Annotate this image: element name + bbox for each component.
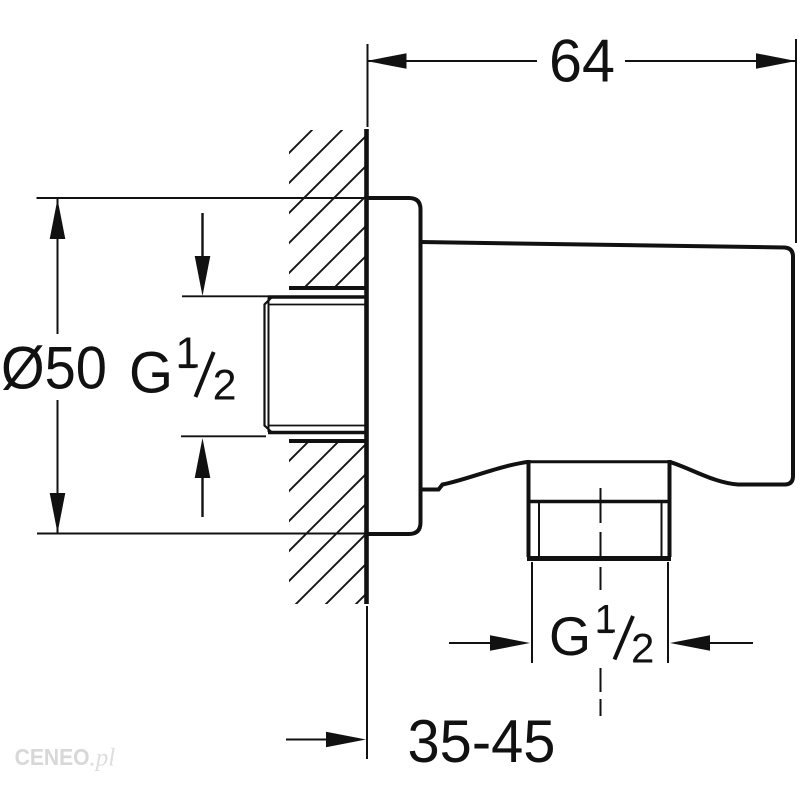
- inlet dim: top arrow (down): [201, 213, 203, 258]
- svg-text:2: 2: [213, 362, 237, 410]
- svg-text:.pl: .pl: [90, 745, 116, 772]
- inlet thread top edge: [268, 295, 366, 299]
- dim D50: top arrowhead: [50, 199, 66, 239]
- outlet label G 1/2: fraction slash: [615, 616, 634, 660]
- outlet dim G 1/2: left arrow: [449, 642, 492, 644]
- outlet hub right edge: [668, 460, 672, 503]
- svg-text:1: 1: [175, 329, 199, 378]
- dim 64: left extension line: [367, 44, 369, 127]
- escutcheon flange outline: [366, 198, 421, 534]
- svg-text:64: 64: [549, 28, 615, 95]
- inlet thread inner top line: [269, 304, 367, 306]
- wall hole bottom edge: [289, 439, 365, 443]
- inlet dim: bottom extension line: [181, 435, 266, 437]
- dim 64: left arrowhead: [367, 53, 407, 69]
- dim D50: dimension line: [57, 199, 59, 334]
- dim D50: bottom extension line: [37, 533, 366, 535]
- outlet thread bottom face: [527, 556, 671, 561]
- outlet dim G 1/2: right arrow: [670, 635, 710, 651]
- body bottom-left outline: [421, 462, 529, 490]
- svg-text:1: 1: [594, 598, 616, 642]
- outlet thread right edge: [668, 502, 672, 558]
- outlet hub shoulder line: [529, 460, 670, 463]
- inlet dim: bottom arrow (up): [195, 438, 211, 478]
- dim 35-45: extension line: [366, 606, 368, 759]
- svg-text:G: G: [549, 605, 591, 667]
- inlet dim: top extension line: [182, 295, 268, 297]
- label G 1/2 (inlet): fraction slash: [196, 352, 214, 397]
- outlet thread inner left line: [538, 503, 540, 556]
- svg-text:35-45: 35-45: [408, 708, 556, 775]
- svg-text:CENEO: CENEO: [15, 744, 90, 770]
- dim 64: dimension line: [367, 60, 538, 62]
- dim D50: top extension line: [37, 197, 367, 199]
- inlet thread left end with chamfers: [265, 297, 273, 433]
- svg-text:2: 2: [631, 625, 654, 672]
- svg-text:Ø50: Ø50: [1, 335, 107, 402]
- outlet thread left edge: [527, 502, 531, 558]
- outlet thread top line: [527, 500, 671, 504]
- outlet hub left edge: [527, 460, 531, 503]
- inlet thread bottom edge: [268, 431, 366, 435]
- wall hole top edge: [289, 286, 365, 290]
- outlet dim G 1/2: right extension line: [667, 562, 669, 663]
- inlet thread inner left line: [268, 298, 270, 433]
- wall hatch lines lower: [140, 120, 800, 610]
- wall hatch lines upper: [0, 120, 532, 610]
- outlet thread inner right line: [661, 503, 663, 556]
- svg-text:G: G: [129, 341, 173, 406]
- inlet thread inner bottom line: [269, 425, 367, 427]
- outlet dim G 1/2: left extension line: [531, 562, 533, 663]
- wall face line: [364, 129, 369, 604]
- dim 64: right extension line: [795, 39, 797, 243]
- body top outline: [421, 242, 794, 485]
- dim 35-45: arrow: [286, 739, 330, 741]
- dim D50: bottom arrowhead: [50, 493, 66, 533]
- outlet centre line (dash-dot): [600, 488, 602, 716]
- dim 64: right arrowhead: [756, 53, 796, 69]
